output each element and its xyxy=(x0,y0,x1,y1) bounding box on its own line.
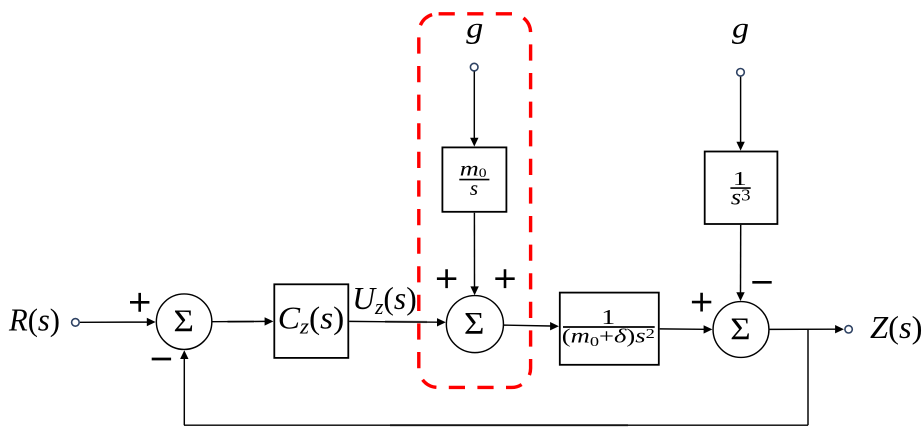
block m0/s xyxy=(442,147,506,211)
output terminal xyxy=(845,326,852,333)
dashed boundary (red rounded rect) xyxy=(419,14,531,388)
wire sum3 to output xyxy=(769,328,836,330)
wire m0/s to sum2 xyxy=(473,213,475,287)
svg-text:Cz(s): Cz(s) xyxy=(278,300,345,339)
wire Cz to sum2 (gray segment) xyxy=(385,321,427,324)
svg-text:Z(s): Z(s) xyxy=(870,309,923,345)
svg-text:Uz(s): Uz(s) xyxy=(352,280,417,319)
plus sign at sum1 xyxy=(130,293,149,312)
terminal g right xyxy=(737,69,745,77)
svg-text:Σ: Σ xyxy=(174,303,194,339)
wire plant to sum3 xyxy=(660,328,704,330)
summing junction S3 xyxy=(713,302,769,358)
minus sign at sum3 xyxy=(752,281,771,284)
plus sign left at sum2 xyxy=(437,269,456,288)
svg-text:Σ: Σ xyxy=(464,305,484,341)
svg-text:s: s xyxy=(470,176,478,200)
plus sign at sum3 xyxy=(692,293,711,312)
wire 1/s3 to sum3 xyxy=(740,225,742,293)
wire sum2 to plant block xyxy=(503,324,550,327)
input terminal xyxy=(72,319,80,327)
summing junction S2 xyxy=(446,296,503,353)
feedback wire bottom xyxy=(184,424,808,426)
wire sum1 to Cz block xyxy=(212,320,265,322)
wire input to sum1 xyxy=(80,321,147,323)
block 1/s3 xyxy=(705,152,778,225)
svg-text:g: g xyxy=(466,12,483,45)
wire Cz to sum2 xyxy=(349,320,438,323)
minus sign at sum1 xyxy=(152,358,171,361)
block 1/((m0+d)s^2) xyxy=(560,293,659,365)
plus sign right at sum2 xyxy=(495,269,514,288)
svg-text:(m0+δ)s2: (m0+δ)s2 xyxy=(562,326,655,349)
feedback wire down from output line xyxy=(807,329,809,425)
svg-text:Σ: Σ xyxy=(730,310,750,346)
wire g to 1/s3 block xyxy=(740,77,742,142)
terminal g middle xyxy=(470,63,478,71)
svg-text:g: g xyxy=(732,12,749,45)
wire g to m0/s block xyxy=(473,72,475,139)
feedback wire bottom (gray segment) xyxy=(390,424,628,426)
block Cz(s) xyxy=(274,284,348,358)
svg-text:1: 1 xyxy=(601,305,615,329)
svg-text:R(s): R(s) xyxy=(8,302,60,338)
feedback wire up to sum1 xyxy=(183,359,185,426)
summing junction S1 xyxy=(156,294,212,350)
wire sum1 to Cz block (gray segment) xyxy=(228,320,255,322)
